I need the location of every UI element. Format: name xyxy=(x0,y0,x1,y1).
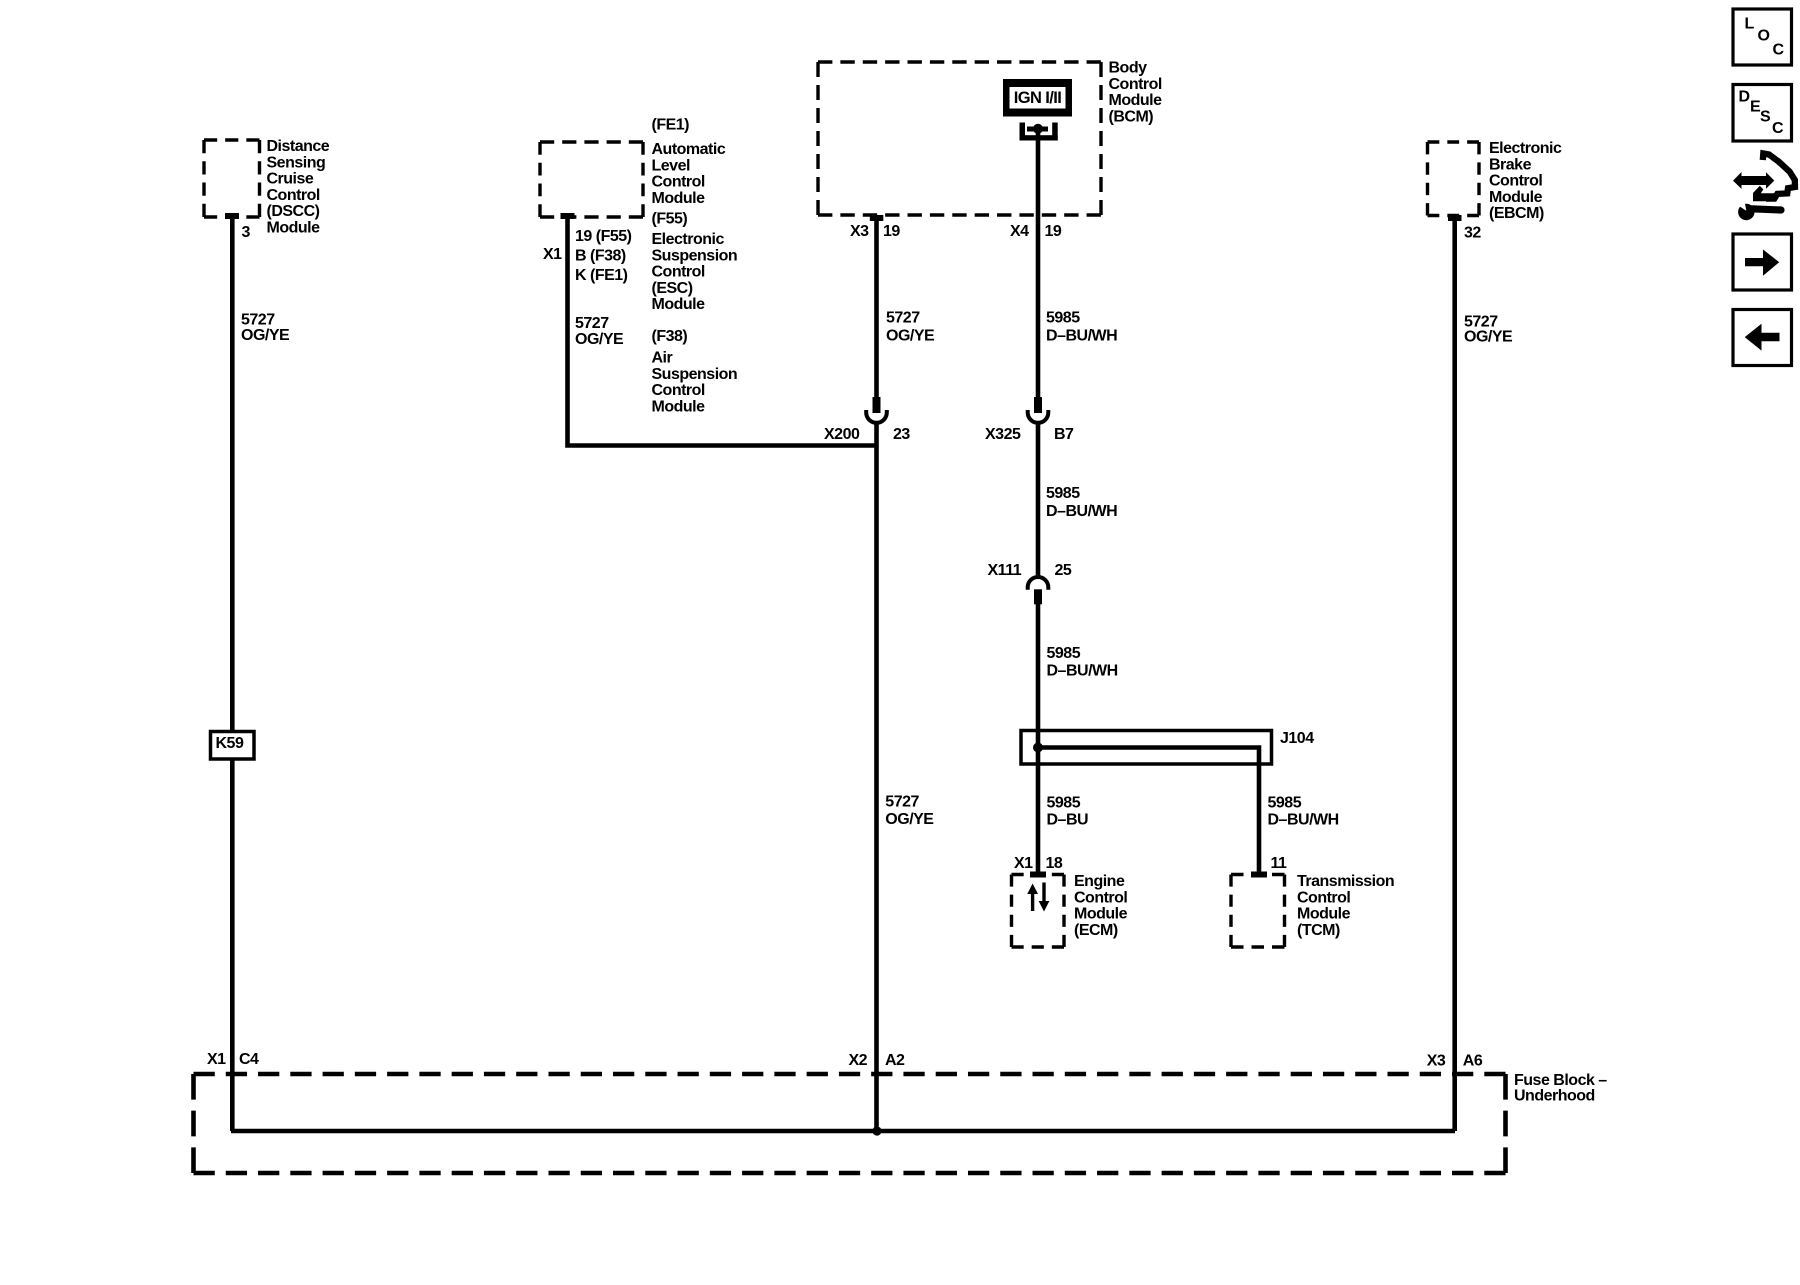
svg-text:X1: X1 xyxy=(207,1051,226,1068)
svg-text:3: 3 xyxy=(242,224,251,241)
svg-text:Control: Control xyxy=(652,264,705,281)
svg-text:C: C xyxy=(1773,42,1785,59)
svg-text:A2: A2 xyxy=(885,1052,905,1069)
svg-text:5727: 5727 xyxy=(241,312,275,329)
svg-text:OG/YE: OG/YE xyxy=(241,327,290,344)
svg-text:C4: C4 xyxy=(239,1051,259,1068)
svg-text:X4: X4 xyxy=(1010,223,1029,240)
svg-text:(EBCM): (EBCM) xyxy=(1489,205,1544,222)
svg-text:Transmission: Transmission xyxy=(1297,873,1394,890)
svg-text:B (F38): B (F38) xyxy=(575,248,626,265)
svg-text:Control: Control xyxy=(1297,889,1350,906)
svg-text:Body: Body xyxy=(1109,60,1148,77)
svg-text:Module: Module xyxy=(1109,92,1163,109)
svg-text:Suspension: Suspension xyxy=(652,366,738,383)
svg-text:Module: Module xyxy=(652,398,706,415)
svg-text:Electronic: Electronic xyxy=(1489,140,1562,157)
svg-text:X200: X200 xyxy=(824,426,860,443)
svg-text:X111: X111 xyxy=(988,562,1022,579)
svg-text:Module: Module xyxy=(1297,906,1351,923)
svg-text:(ESC): (ESC) xyxy=(652,280,693,297)
svg-text:J104: J104 xyxy=(1280,730,1314,747)
svg-text:5985: 5985 xyxy=(1046,485,1080,502)
svg-text:19 (F55): 19 (F55) xyxy=(575,228,632,245)
svg-text:D–BU/WH: D–BU/WH xyxy=(1268,812,1339,829)
svg-text:5727: 5727 xyxy=(575,315,609,332)
svg-text:C: C xyxy=(1772,120,1784,137)
svg-text:Fuse Block –: Fuse Block – xyxy=(1514,1072,1607,1089)
svg-text:5985: 5985 xyxy=(1268,794,1302,811)
svg-text:Control: Control xyxy=(1074,889,1127,906)
svg-text:Module: Module xyxy=(652,190,706,207)
svg-text:IGN I/II: IGN I/II xyxy=(1014,89,1061,107)
svg-text:B7: B7 xyxy=(1054,426,1074,443)
svg-text:32: 32 xyxy=(1464,225,1481,242)
svg-text:5727: 5727 xyxy=(885,793,919,810)
svg-text:Control: Control xyxy=(652,174,705,191)
svg-text:(F38): (F38) xyxy=(652,328,688,345)
svg-text:Level: Level xyxy=(652,157,690,174)
svg-text:A6: A6 xyxy=(1463,1053,1483,1070)
svg-text:Air: Air xyxy=(652,350,673,367)
svg-text:5985: 5985 xyxy=(1047,794,1081,811)
svg-text:5985: 5985 xyxy=(1046,309,1080,326)
svg-text:Brake: Brake xyxy=(1489,156,1532,173)
svg-text:(BCM): (BCM) xyxy=(1109,108,1154,125)
svg-text:Sensing: Sensing xyxy=(267,154,326,171)
svg-text:(F55): (F55) xyxy=(652,210,688,227)
svg-text:(DSCC): (DSCC) xyxy=(267,203,320,220)
svg-text:Automatic: Automatic xyxy=(652,141,726,158)
svg-text:D–BU: D–BU xyxy=(1047,812,1089,829)
svg-text:K (FE1): K (FE1) xyxy=(575,267,628,284)
svg-text:19: 19 xyxy=(883,223,900,240)
svg-text:5727: 5727 xyxy=(886,309,920,326)
svg-text:Engine: Engine xyxy=(1074,873,1125,890)
svg-text:D–BU/WH: D–BU/WH xyxy=(1046,327,1117,344)
svg-text:Control: Control xyxy=(1489,173,1542,190)
svg-text:Module: Module xyxy=(267,220,321,237)
svg-text:OG/YE: OG/YE xyxy=(885,811,934,828)
svg-text:O: O xyxy=(1758,28,1770,45)
svg-text:18: 18 xyxy=(1046,855,1063,872)
svg-text:(ECM): (ECM) xyxy=(1074,922,1118,939)
svg-text:Distance: Distance xyxy=(267,138,330,155)
svg-text:K59: K59 xyxy=(216,735,244,752)
svg-text:Control: Control xyxy=(267,187,320,204)
svg-text:X3: X3 xyxy=(850,223,869,240)
svg-text:D: D xyxy=(1739,89,1750,106)
svg-text:23: 23 xyxy=(893,426,910,443)
svg-text:19: 19 xyxy=(1045,223,1062,240)
svg-text:5985: 5985 xyxy=(1047,645,1081,662)
svg-text:OG/YE: OG/YE xyxy=(1464,329,1513,346)
svg-text:X3: X3 xyxy=(1427,1053,1446,1070)
svg-text:D–BU/WH: D–BU/WH xyxy=(1047,662,1118,679)
svg-text:OG/YE: OG/YE xyxy=(886,327,935,344)
svg-text:(FE1): (FE1) xyxy=(652,116,690,133)
svg-text:X1: X1 xyxy=(1014,855,1033,872)
svg-text:Electronic: Electronic xyxy=(652,231,725,248)
svg-text:L: L xyxy=(1745,16,1755,33)
svg-text:Module: Module xyxy=(1074,906,1128,923)
svg-text:OG/YE: OG/YE xyxy=(575,331,624,348)
svg-text:Module: Module xyxy=(1489,189,1543,206)
svg-text:X2: X2 xyxy=(849,1052,868,1069)
svg-text:X1: X1 xyxy=(543,246,562,263)
svg-text:Control: Control xyxy=(652,382,705,399)
svg-text:Control: Control xyxy=(1109,76,1162,93)
svg-text:D–BU/WH: D–BU/WH xyxy=(1046,503,1117,520)
svg-text:Suspension: Suspension xyxy=(652,247,738,264)
svg-text:11: 11 xyxy=(1271,855,1288,872)
svg-text:(TCM): (TCM) xyxy=(1297,922,1340,939)
svg-text:Module: Module xyxy=(652,296,706,313)
svg-text:Underhood: Underhood xyxy=(1514,1088,1595,1105)
svg-text:X325: X325 xyxy=(985,426,1021,443)
svg-text:Cruise: Cruise xyxy=(267,171,314,188)
svg-text:S: S xyxy=(1760,109,1771,126)
svg-text:25: 25 xyxy=(1055,562,1072,579)
